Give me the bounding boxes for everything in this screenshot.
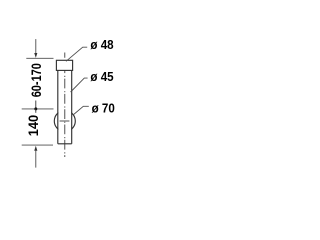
dim arrow top (points down) <box>35 39 37 54</box>
extension line top (60-170 upper ref) <box>26 57 53 59</box>
tube left edge <box>57 70 59 143</box>
leader line ø48 <box>66 47 87 61</box>
svg-text:ø 48: ø 48 <box>90 37 113 52</box>
leader line ø45 <box>71 78 88 92</box>
svg-text:60-170: 60-170 <box>28 63 44 97</box>
tube interior mask <box>58 109 71 135</box>
extension line middle <box>22 108 54 110</box>
junction dot <box>34 107 37 110</box>
ball joint circle ø70 <box>54 111 75 132</box>
extension line bottom <box>22 144 53 146</box>
centerline axis <box>64 53 66 158</box>
dim line stub below dot <box>35 109 37 113</box>
cap ø48 <box>56 60 72 70</box>
dim arrow bottom (points up) <box>34 146 37 151</box>
svg-text:ø 70: ø 70 <box>92 100 115 115</box>
tube right edge <box>71 70 73 143</box>
svg-text:140: 140 <box>26 115 41 137</box>
svg-text:ø 45: ø 45 <box>90 69 113 84</box>
leader line ø70 <box>73 106 89 115</box>
tube bottom edge <box>58 143 72 145</box>
circle center cross <box>60 120 70 122</box>
dim line stub above dot <box>35 101 37 109</box>
